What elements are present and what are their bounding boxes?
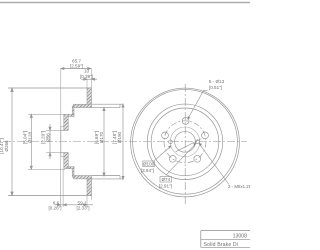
leader D100 [155,146,172,161]
M8 holes [169,140,173,144]
bore lines [61,129,68,131]
svg-text:13008: 13008 [233,233,248,239]
leader M8 [199,143,229,184]
svg-text:10: 10 [84,69,90,74]
svg-text:[5.04"]Ø128: [5.04"]Ø128 [23,131,33,144]
svg-text:Ø74: Ø74 [161,177,170,182]
svg-text:Solid Brake Di: Solid Brake Di [204,242,239,248]
bottom dims 6.6 / 59.1 [60,157,62,207]
svg-text:[2.20"]Ø56: [2.20"]Ø56 [40,131,50,144]
left view: OD extension lines [8,87,92,89]
hat step walls bottom [72,167,74,177]
stud holes [182,118,189,125]
svg-text:[2.33"]: [2.33"] [76,206,89,211]
pcd circle [164,121,206,163]
dim D56 [46,129,61,131]
svg-text:[10.47"]Ø266: [10.47"]Ø266 [0,138,9,154]
top frame line [0,2,250,4]
dim D170 right [103,108,105,177]
leader D74 [166,143,197,175]
svg-text:[2.59"]: [2.59"] [70,64,83,69]
drum circles [147,104,222,179]
dim line D266 [11,88,13,196]
svg-text:[3.94"]: [3.94"] [141,168,154,173]
top dim 65.7 [60,69,62,127]
svg-text:Ø100: Ø100 [143,162,155,167]
svg-text:[6.69"]Ø170: [6.69"]Ø170 [94,131,104,144]
horizontal centerline [3,141,247,143]
svg-text:[0.39"]: [0.39"] [80,74,93,79]
svg-text:2 - M8x1.25: 2 - M8x1.25 [228,184,250,189]
drum cylinder walls (hatched near hat) [74,104,92,107]
boxed label D74 [2.91"] [159,177,172,189]
bore [175,131,196,152]
disc ring section (hatched) [87,88,92,104]
top dim 10 [86,79,88,88]
svg-text:6.6: 6.6 [53,200,60,205]
svg-text:[2.91"]: [2.91"] [159,183,172,188]
svg-text:[7.48"]Ø190: [7.48"]Ø190 [112,131,122,144]
dim D190 right [122,104,124,180]
hub flange walls [64,115,68,131]
boxed label D100 PCD [3.94"] [141,161,155,173]
vertical centerline [184,84,186,204]
svg-text:5 - Ø13: 5 - Ø13 [209,79,225,84]
dim D128 [28,113,65,115]
svg-text:[0.51"]: [0.51"] [209,85,222,90]
svg-text:[0.26"]: [0.26"] [48,206,61,211]
boss circle [170,127,200,157]
svg-text:59.1: 59.1 [78,200,87,205]
title table border [201,231,250,248]
hub boss face [60,127,62,157]
outer circle [131,88,240,197]
chord through M8 [176,139,202,152]
leader 5-D13 [188,91,208,120]
hat step walls top [72,106,74,116]
